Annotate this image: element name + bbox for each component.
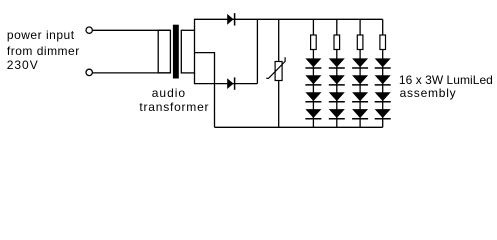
resistor R2 [334, 35, 340, 50]
LED D15 [375, 58, 391, 67]
wire: phase input to transformer [93, 29, 170, 31]
transformer T1 primary winding [158, 30, 170, 73]
wire: D2 cathode up to positive rail [256, 19, 258, 83]
terminal: neutral input [86, 69, 92, 75]
LED D7 [329, 58, 345, 67]
wire: secondary bottom lead to diode D2 [195, 73, 258, 84]
LED D11 [352, 58, 368, 67]
wire: neutral input to transformer [93, 72, 170, 74]
label: power input line 3 [7, 59, 39, 71]
label: LED assembly line 2 [400, 87, 457, 99]
label: power input line 1 [7, 29, 75, 41]
LED D4 [305, 75, 321, 84]
wire: secondary top lead up to positive rail [194, 19, 196, 30]
resistor R1 [311, 35, 317, 50]
wire: rail to varistor top [278, 19, 280, 61]
wire: positive top rail [194, 18, 383, 20]
LED D12 [352, 75, 368, 84]
transformer T1 core [173, 25, 179, 79]
LED D17 [375, 92, 391, 101]
LED string 1 [305, 19, 321, 127]
wire: rail to resistor R3 [359, 19, 361, 35]
LED D18 [375, 109, 391, 118]
LED D13 [352, 92, 368, 101]
terminal: phase input [86, 27, 92, 33]
LED string 4 [375, 19, 391, 127]
label: audio transformer line 2 [139, 101, 209, 113]
label: power input line 2 [7, 45, 80, 57]
LED D8 [329, 75, 345, 84]
LED D16 [375, 75, 391, 84]
LED D9 [329, 92, 345, 101]
label: LED assembly line 1 [399, 74, 493, 86]
wire: varistor bottom to rail [278, 81, 280, 128]
LED string 3 [352, 19, 368, 127]
diode D2 [227, 77, 234, 89]
wire: string 1 vertical [312, 50, 314, 128]
LED D10 [329, 109, 345, 118]
wire: rail to resistor R4 [382, 19, 384, 35]
wire: negative bottom rail [215, 126, 383, 128]
resistor R3 [357, 35, 363, 50]
diode D1 [227, 13, 234, 25]
wire: rail to resistor R2 [336, 19, 338, 35]
varistor RV1 [266, 19, 285, 127]
LED D5 [305, 92, 321, 101]
wire: string 4 vertical [382, 50, 384, 128]
wire: rail to resistor R1 [312, 19, 314, 35]
LED D14 [352, 109, 368, 118]
varistor diagonal stroke [266, 57, 285, 78]
wire: secondary center tap to negative rail [195, 53, 215, 128]
wire: string 3 vertical [359, 50, 361, 128]
transformer T1 secondary winding [181, 30, 194, 73]
varistor body [275, 62, 282, 81]
label: audio transformer line 1 [152, 87, 186, 99]
resistor R4 [380, 35, 386, 50]
wire: string 2 vertical [336, 50, 338, 128]
LED D3 [305, 58, 321, 67]
LED D6 [305, 109, 321, 118]
LED string 2 [329, 19, 345, 127]
